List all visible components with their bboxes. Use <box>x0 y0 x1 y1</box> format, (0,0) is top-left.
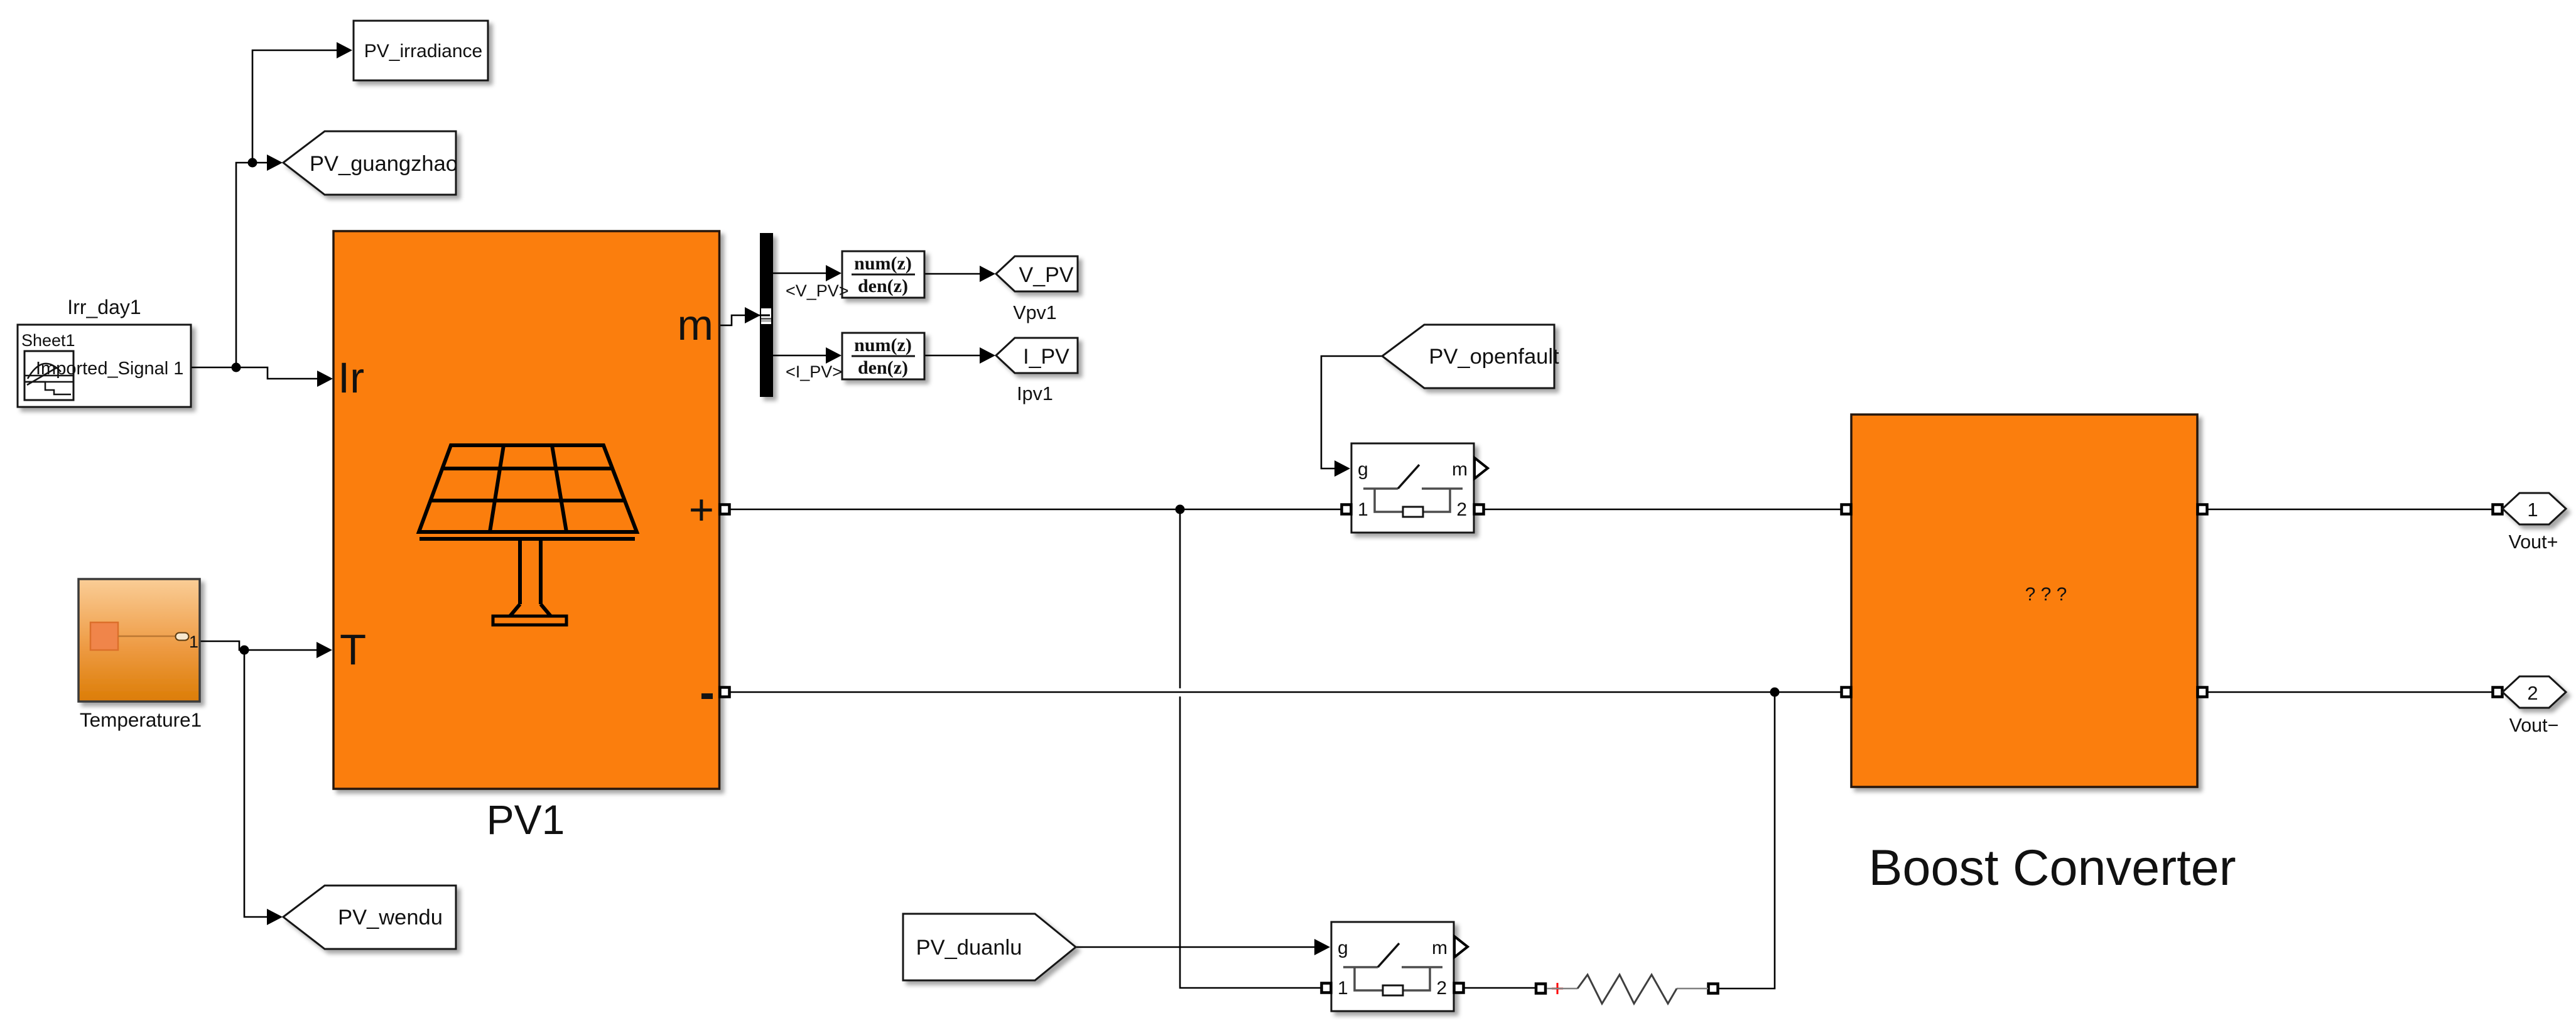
svg-text:1: 1 <box>189 632 198 651</box>
svg-text:T: T <box>340 626 366 674</box>
svg-text:PV_openfault: PV_openfault <box>1429 345 1559 369</box>
svg-text:PV1: PV1 <box>487 796 565 843</box>
svg-text:g: g <box>1358 459 1368 480</box>
svg-text:Irr_day1: Irr_day1 <box>67 296 141 318</box>
svg-text:Temperature1: Temperature1 <box>80 708 202 731</box>
svg-text:2: 2 <box>1436 978 1447 999</box>
svg-text:2: 2 <box>2527 682 2538 704</box>
svg-text:den(z): den(z) <box>858 357 908 378</box>
svg-text:Vpv1: Vpv1 <box>1013 302 1057 323</box>
svg-text:Sheet1: Sheet1 <box>21 331 75 350</box>
svg-text:V_PV: V_PV <box>1019 263 1074 287</box>
svg-text:PV_wendu: PV_wendu <box>338 906 443 929</box>
svg-text:PV_irradiance: PV_irradiance <box>364 41 482 62</box>
svg-text:Imported_Signal 1: Imported_Signal 1 <box>36 359 183 379</box>
svg-text:Ir: Ir <box>338 354 364 402</box>
svg-text:+: + <box>689 485 714 534</box>
svg-text:m: m <box>678 301 713 349</box>
svg-text:<V_PV>: <V_PV> <box>786 281 849 300</box>
svg-text:1: 1 <box>1338 978 1348 999</box>
svg-text:m: m <box>1452 459 1468 480</box>
svg-text:Ipv1: Ipv1 <box>1017 383 1053 404</box>
svg-text:PV_duanlu: PV_duanlu <box>916 936 1022 960</box>
svg-text:? ? ?: ? ? ? <box>2025 584 2067 605</box>
svg-text:den(z): den(z) <box>858 276 908 296</box>
svg-text:PV_guangzhao: PV_guangzhao <box>310 152 458 176</box>
svg-text:num(z): num(z) <box>854 253 912 274</box>
svg-text:num(z): num(z) <box>854 335 912 355</box>
svg-text:1: 1 <box>2527 499 2538 521</box>
svg-text:Boost Converter: Boost Converter <box>1868 840 2236 896</box>
svg-text:Vout+: Vout+ <box>2509 531 2558 553</box>
svg-text:Vout−: Vout− <box>2509 715 2559 736</box>
svg-text:m: m <box>1432 938 1448 958</box>
svg-text:<I_PV>: <I_PV> <box>786 362 842 381</box>
svg-text:I_PV: I_PV <box>1023 345 1069 369</box>
svg-text:2: 2 <box>1456 499 1467 520</box>
svg-text:1: 1 <box>1358 499 1368 520</box>
svg-text:g: g <box>1338 938 1348 958</box>
